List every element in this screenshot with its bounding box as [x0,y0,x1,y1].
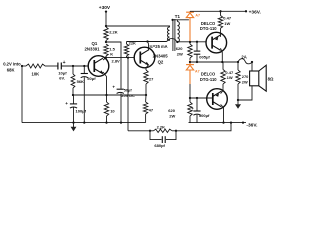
node: top of 620 ohm chain [189,41,191,43]
capacitor C1 10uf 6V (input coupling) [57,63,59,70]
Q2 emitter arrow [145,62,149,65]
svg-text:56K: 56K [77,79,84,84]
svg-text:2A: 2A [241,54,246,59]
svg-text:2W: 2W [169,114,175,119]
node: D2/line y62 junction [189,61,191,63]
svg-text:2W: 2W [242,79,248,84]
svg-text:10K: 10K [32,71,40,76]
wire: feedback line lower jog [128,130,150,132]
capacitor C6 .005uf [196,42,198,51]
svg-text:+: + [63,60,66,66]
wire: driver collector line y=41.5 [127,41,167,43]
fuse 2A [237,61,239,63]
capacitor C3 50uf (base bypass) [83,65,85,67]
transistor Q1 2N3391 [88,56,109,77]
svg-text:+: + [65,101,68,106]
node: input junction [21,65,23,67]
node: bootstrap junction [105,41,107,44]
svg-text:500μf: 500μf [199,113,210,118]
svg-text:50μf: 50μf [87,76,96,81]
wire: input to 10K [22,65,26,67]
svg-text:0.47: 0.47 [223,15,232,20]
capacitor C7 500uf (Q4 base bypass) [196,98,198,111]
resistor R8 47 [145,95,147,102]
svg-text:620: 620 [168,108,175,113]
svg-text:2.2K: 2.2K [109,30,118,35]
svg-text:2W: 2W [177,52,183,57]
svg-text:K: K [110,51,113,56]
transistor Q4 DELCO DTG-110 (lower output) [207,89,228,110]
node: Q2 emitter feedback junction [145,94,147,96]
wire: Q4 emitter lead up [221,89,223,94]
transistor Q2 2N3405 [134,47,155,68]
resistor R9 620 2W [189,42,191,44]
wire: feedback line to -36V rail [176,123,231,131]
resistor R3 10 (Q1 emitter to ground) [106,95,108,102]
svg-text:DTG-110: DTG-110 [200,26,217,31]
node: secondary bottom tap [176,41,178,43]
capacitor C8 680pf (feedback) [150,131,162,140]
svg-text:Ic=25 mA: Ic=25 mA [150,44,168,49]
resistor R1 10K [26,64,45,68]
svg-text:27: 27 [149,76,154,81]
svg-text:10: 10 [110,108,115,113]
svg-text:2.2K: 2.2K [157,124,166,129]
svg-text:+30V: +30V [99,5,111,11]
diode D2 (orange) lower bias [189,60,191,65]
svg-text:68K: 68K [7,67,15,72]
wire: bootstrap to C5 [106,42,121,89]
wire: secondary top tap [176,20,178,22]
svg-text:Q1: Q1 [92,41,98,46]
wire: Q1 collector lead [103,58,106,60]
wire: input node down to ground rail [21,66,23,123]
svg-text:+36V.: +36V. [249,10,261,16]
Q3 emitter arrow (PNP) [215,37,218,41]
node: base divider junction [72,65,74,67]
wire: collector line hop over core [167,39,177,42]
svg-text:2N3405: 2N3405 [153,53,169,58]
resistor R4 2.2K [104,27,108,41]
svg-text:2N3391: 2N3391 [85,46,101,51]
ground (speaker) [237,100,239,104]
wire: 10K to C1 [45,65,58,67]
node: Q2 base line to feedback network [127,56,129,58]
wire: Q2 collector lead up [148,42,149,51]
svg-text:T1: T1 [175,14,181,19]
resistor R13 620 2W (Q4 base) [189,98,191,102]
wire: Q1 collector to Q2 base [106,57,134,59]
svg-text:A7: A7 [195,13,200,17]
svg-text:1W: 1W [227,75,233,80]
resistor R2 56K (base to feedback node) [72,66,74,74]
transistor Q3 DELCO DTG-110 (upper output) [206,32,227,53]
svg-text:620: 620 [176,46,183,51]
node: feedback node at y95 [72,94,74,96]
wire: C1 to Q1 base [61,65,88,67]
wire: bottom right rail to -36V [189,122,247,124]
svg-text:0.2V into: 0.2V into [3,62,21,67]
wire: line y=42 to output stage [177,41,206,43]
resistor R7 27 (Q2 emitter) [144,70,148,84]
wire: Q2 emitter lead [146,65,149,71]
svg-text:100μf: 100μf [76,109,87,114]
svg-text:50μf: 50μf [124,89,133,93]
wire: Q1 emitter lead down [103,72,107,95]
svg-text:+: + [112,85,115,90]
resistor R5 1.5K [104,44,108,56]
wire: Q4 base line [190,97,213,99]
wire: +30V rail to transformer [106,26,170,27]
node: Q1 emitter at feedback line [105,94,107,96]
svg-text:2.8V: 2.8V [112,59,121,64]
svg-text:Q2: Q2 [158,59,164,64]
ground (input stage) [73,123,75,127]
node: Q2 collector junction [146,40,148,42]
svg-text:0.47: 0.47 [225,70,234,75]
speaker 8 ohm [251,62,253,71]
resistor R11 0.47 1W (Q4 emitter) [221,70,225,85]
svg-text:47: 47 [149,107,154,112]
resistor R12 270 2W [237,62,239,70]
diode D1 (orange) top bias [189,10,191,13]
svg-text:1W: 1W [224,21,230,26]
svg-text:-36V.: -36V. [246,123,257,129]
resistor R10 0.47 1W (Q3 emitter) [218,16,222,29]
svg-text:005μf: 005μf [199,55,210,60]
wire: feedback line y=95 [73,94,146,96]
Q1 emitter arrow [100,70,104,73]
svg-text:6V.: 6V. [59,76,65,81]
wire: Q3 emitter lead up [220,28,222,37]
svg-text:680pf: 680pf [154,143,165,148]
wire: Q4 collector lead down [221,104,224,122]
svg-text:8Ω: 8Ω [268,77,274,82]
wire: output line y=62 [190,61,238,63]
svg-text:DTG-110: DTG-110 [200,77,217,82]
svg-text:25V DC: 25V DC [121,94,135,98]
resistor R6 22K [126,42,128,45]
capacitor C5 50uf 25V DC (bootstrap) [117,88,124,90]
wire: Q3 collector lead down [221,48,223,62]
node: output node at Q3 collector [221,61,223,63]
capacitor C2 100uf (feedback node to ground) [73,95,75,104]
node: speaker return junction [237,99,239,101]
power rail +36V [190,10,246,12]
svg-text:270: 270 [242,74,249,79]
wire: bottom ground rail (left) [22,122,146,124]
resistor R14 2.2K (feedback) [154,129,173,132]
Q4 emitter arrow (PNP) [216,93,219,97]
svg-text:DELCO: DELCO [201,71,216,76]
svg-text:A7: A7 [195,69,200,73]
